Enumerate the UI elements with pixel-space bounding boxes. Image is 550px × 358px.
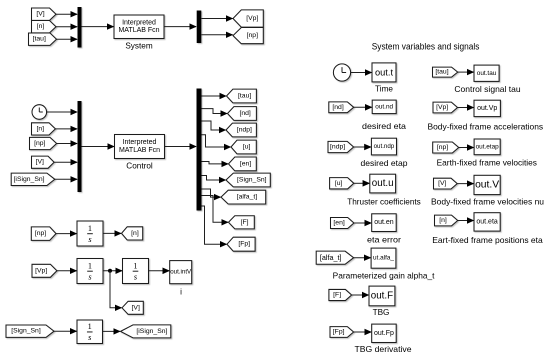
wire [Vp] to Integrator2 [57,270,77,272]
From tag [iSign_Sn] (F_iSign) [11,173,55,185]
To-Workspace block out.ndp [371,138,396,155]
To-Workspace block out.etap [474,139,500,155]
svg-text:Time: Time [375,85,393,94]
svg-text:[Fp]: [Fp] [333,329,345,336]
wire [tau] to Mux1 [57,38,78,40]
block System (Interpreted MATLAB Fcn U1) [114,15,164,39]
svg-text:Control signal tau: Control signal tau [454,85,521,94]
svg-text:[np]: [np] [35,230,46,237]
wire Demux2 port9 to [Fp] [202,206,227,244]
svg-text:[ndp]: [ndp] [237,127,252,134]
Goto tag [V] (G_V3) [122,301,143,314]
svg-text:out.nd: out.nd [375,103,393,110]
From tag [ndp] (F_ndp_r) [328,141,354,152]
svg-text:TBG derivative: TBG derivative [355,345,412,354]
wire Integrator4 to [iSign_Sn] [103,330,121,332]
svg-text:Thruster coefficients: Thruster coefficients [347,198,421,207]
Goto tag [Vp] (G_Vp1) [233,10,263,27]
wire [n] to Mux1 [56,26,77,28]
svg-text:out.en: out.en [374,219,394,226]
Goto tag [u] (G_u) [231,140,256,154]
Goto tag [ndp] (G_ndp) [226,123,256,137]
wire [V] to Mux2 [54,161,77,163]
Goto tag [np] (G_np1) [233,28,263,44]
From tag [tau] (F_tau1) [29,33,57,45]
svg-text:[Vp]: [Vp] [436,104,448,111]
From tag [Vp] (F_Vp3) [32,264,57,277]
svg-text:out.tau: out.tau [477,70,497,77]
svg-text:Control: Control [126,161,153,170]
To-Workspace block out.F [369,286,395,306]
svg-text:[ndp]: [ndp] [330,144,345,151]
From tag [Fp] (F_Fp_r) [330,327,354,338]
svg-text:out.V: out.V [475,179,499,190]
From tag [F] (F_F_r) [329,289,352,300]
wire Integrator1 to [n] [103,232,121,234]
To-Workspace block out.t [372,63,396,82]
wire [ndp] to out.ndp [354,146,371,148]
Integrator4 (1/s) [77,320,103,344]
svg-text:Body-fixed frame accelerations: Body-fixed frame accelerations [428,122,544,131]
svg-text:[F]: [F] [241,219,249,226]
wire [iSign_Sn] to Mux2 [55,178,77,180]
svg-text:s: s [134,272,137,281]
wire Demux2 port1 to [tau] [202,95,227,97]
svg-text:out.F: out.F [371,290,393,301]
wire Demux2 port2 to [nd] [202,109,228,114]
From tag [V] (F_V1) [32,8,57,20]
wire [n] to Mux2 [55,128,77,130]
svg-text:MATLAB Fcn: MATLAB Fcn [119,147,160,154]
To-Workspace block out.u [370,174,396,193]
svg-text:ut.alfa_: ut.alfa_ [373,255,394,262]
wire Demux2 port8 to [F] [202,196,229,223]
svg-text:1: 1 [133,261,137,270]
From tag [nd] (F_nd_r) [329,102,354,113]
svg-text:eta error: eta error [367,235,401,244]
svg-text:out.etap: out.etap [476,143,500,150]
wire [F] to out.F [352,294,369,296]
wire Demux2 port6 to [Sign_Sn] [202,176,226,181]
svg-text:[Fp]: [Fp] [238,241,250,248]
svg-text:out.eta: out.eta [476,218,498,225]
To-Workspace block out.Fp [372,324,397,342]
svg-text:[V]: [V] [36,11,44,18]
svg-text:[n]: [n] [36,125,44,132]
From tag [np] (F_np_r) [433,142,459,153]
svg-text:[V]: [V] [438,180,446,187]
To-Workspace block out.intV [170,261,192,284]
svg-text:s: s [88,235,91,244]
Clock1 [32,105,47,120]
Goto tag [nd] (G_nd) [228,107,257,121]
From tag [np] (F_np3) [31,227,56,241]
From tag [n] (F_n2) [32,123,56,135]
svg-text:out.ndp: out.ndp [374,143,395,150]
Goto tag [en] (G_en) [229,157,257,171]
wire [en] to out.en [354,222,371,224]
wire [Fp] to out.Fp [354,331,372,333]
svg-text:[n]: [n] [131,230,139,237]
Goto tag [iSign_Sn] (G_iSign) [121,325,171,338]
Integrator3 (1/s) [123,259,149,284]
From tag [Sign_Sn] (F_SignSn) [6,325,54,337]
wire Clock2 to out.t [351,72,372,74]
svg-text:desired etap: desired etap [361,159,408,168]
svg-text:MATLAB Fcn: MATLAB Fcn [118,27,159,34]
Demux Demux2 [197,89,202,211]
svg-text:[nd]: [nd] [332,104,343,111]
wire [alfa_t] to out.alfa [354,257,371,259]
wire Demux2 port4 to [u] [202,135,231,147]
From tag [alfa_t] (F_alfat_r) [316,251,353,264]
Integrator2 (1/s) [77,259,103,284]
svg-text:System: System [125,41,152,50]
svg-text:[n]: [n] [439,217,447,224]
svg-text:Interpreted: Interpreted [123,139,157,146]
svg-text:[en]: [en] [333,220,344,227]
svg-text:Eart-fixed frame positions eta: Eart-fixed frame positions eta [432,236,543,245]
To-Workspace block out.en [372,214,397,232]
svg-text:[en]: [en] [240,160,251,167]
wire [Sign_Sn] to Integrator4 [54,330,77,332]
svg-text:TBG: TBG [373,308,390,317]
wire Clock1 to Mux2 [47,111,77,113]
wire Mux2 to Control block [82,146,115,148]
wire [V] to out.V [457,183,473,185]
Mux Mux1 [78,7,82,48]
Goto tag [Sign_Sn] (G_SignSn) [226,173,270,187]
Goto tag [n] (G_n3) [122,227,143,240]
block Control (Interpreted MATLAB Fcn U2) [115,135,165,159]
wire [np] to Mux2 [57,143,77,145]
Integrator1 (1/s) [77,221,103,246]
wire branch to [V] [110,271,122,308]
wire [V] to Mux1 [56,13,77,15]
svg-text:out.u: out.u [372,178,394,189]
From tag [Vp] (F_Vp_r) [433,102,458,113]
wire [nd] to out.nd [354,106,372,108]
From tag [u] (F_u_r) [330,178,354,189]
svg-text:[tau]: [tau] [435,69,448,76]
svg-text:[np]: [np] [437,144,448,151]
From tag [n] (F_n_r) [435,215,458,226]
svg-text:[iSign_Sn]: [iSign_Sn] [136,328,167,335]
From tag [V] (F_V2) [32,156,55,168]
svg-text:[V]: [V] [132,304,140,311]
From tag [V] (F_V_r) [434,178,458,189]
svg-text:[tau]: [tau] [238,93,251,100]
wire Integrator2 to Integrator3 [103,270,122,272]
svg-text:out.t: out.t [375,67,394,77]
Demux Demux1 [197,11,202,44]
wire Demux2 port3 to [ndp] [202,121,226,130]
svg-text:[n]: [n] [37,23,45,30]
Goto tag [F] (G_F) [229,216,255,229]
svg-text:1: 1 [88,261,92,270]
svg-text:1: 1 [88,224,92,233]
Mux Mux2 [78,101,82,192]
svg-text:[Sign_Sn]: [Sign_Sn] [237,177,267,184]
svg-text:[u]: [u] [243,144,251,151]
wire [n] to out.eta [458,220,474,222]
svg-text:1: 1 [88,322,92,331]
svg-text:Earth-fixed frame velocities: Earth-fixed frame velocities [437,158,537,167]
From tag [tau] (F_tau_r) [433,67,458,77]
svg-text:desired eta: desired eta [362,122,406,131]
wire System to Demux1 [164,26,196,28]
junction node on [V] line [108,269,112,273]
svg-text:[Vp]: [Vp] [246,15,258,22]
wire Mux1 to System block [82,26,114,28]
svg-text:[V]: [V] [36,159,44,166]
wire [u] to out.u [354,182,370,184]
From tag [np] (F_np2) [30,137,57,149]
From tag [n] (F_n1) [32,21,57,33]
svg-text:[Vp]: [Vp] [35,267,47,274]
To-Workspace block out.eta [474,213,500,231]
svg-text:[np]: [np] [247,32,258,39]
To-Workspace block out.alfa_t [371,248,396,268]
wire Demux1 port2 to [np] [201,34,232,36]
svg-text:[iSign_Sn]: [iSign_Sn] [14,176,45,183]
svg-text:[alfa_t]: [alfa_t] [237,194,258,201]
svg-text:out.Fp: out.Fp [374,330,394,337]
svg-text:s: s [88,272,91,281]
wire [np] to Integrator1 [56,233,77,235]
To-Workspace block out.Vp [474,100,500,116]
svg-text:Interpreted: Interpreted [122,19,156,26]
svg-text:[alfa_t]: [alfa_t] [320,253,342,262]
Goto tag [alfa_t] (G_alfat) [221,190,266,204]
svg-text:out.Vp: out.Vp [477,105,497,112]
Clock2 [333,64,350,81]
To-Workspace block out.V [474,175,500,194]
Goto tag [Fp] (G_Fp) [227,237,255,251]
wire Integrator3 to out.intV [149,270,170,272]
svg-text:System variables and signals: System variables and signals [372,41,480,51]
wire Demux1 port1 to [Vp] [201,18,232,20]
svg-text:[u]: [u] [335,180,343,187]
svg-text:[F]: [F] [333,292,341,299]
To-Workspace block out.nd [372,100,396,114]
Goto tag [tau] (G_tau) [227,89,257,103]
wire [np] to out.etap [459,147,474,149]
wire [tau] to out.tau [458,71,474,73]
svg-text:out.intV: out.intV [170,269,192,276]
svg-text:Parameterized gain alpha_t: Parameterized gain alpha_t [333,271,436,280]
wire [Vp] to out.Vp [458,107,474,109]
wire Control to Demux2 [165,146,197,148]
svg-text:i: i [180,287,182,296]
svg-text:[nd]: [nd] [239,110,250,117]
svg-text:[Sign_Sn]: [Sign_Sn] [11,328,41,335]
svg-text:s: s [88,333,91,342]
svg-text:[tau]: [tau] [33,36,46,43]
wire Demux2 port7 to [alfa_t] [202,189,221,197]
svg-text:[np]: [np] [34,140,45,147]
From tag [en] (F_en_r) [331,218,354,229]
wire Demux2 port5 to [en] [202,162,229,164]
To-Workspace block out.tau [474,65,499,81]
svg-text:Body-fixed frame velocities nu: Body-fixed frame velocities nu [431,197,544,206]
